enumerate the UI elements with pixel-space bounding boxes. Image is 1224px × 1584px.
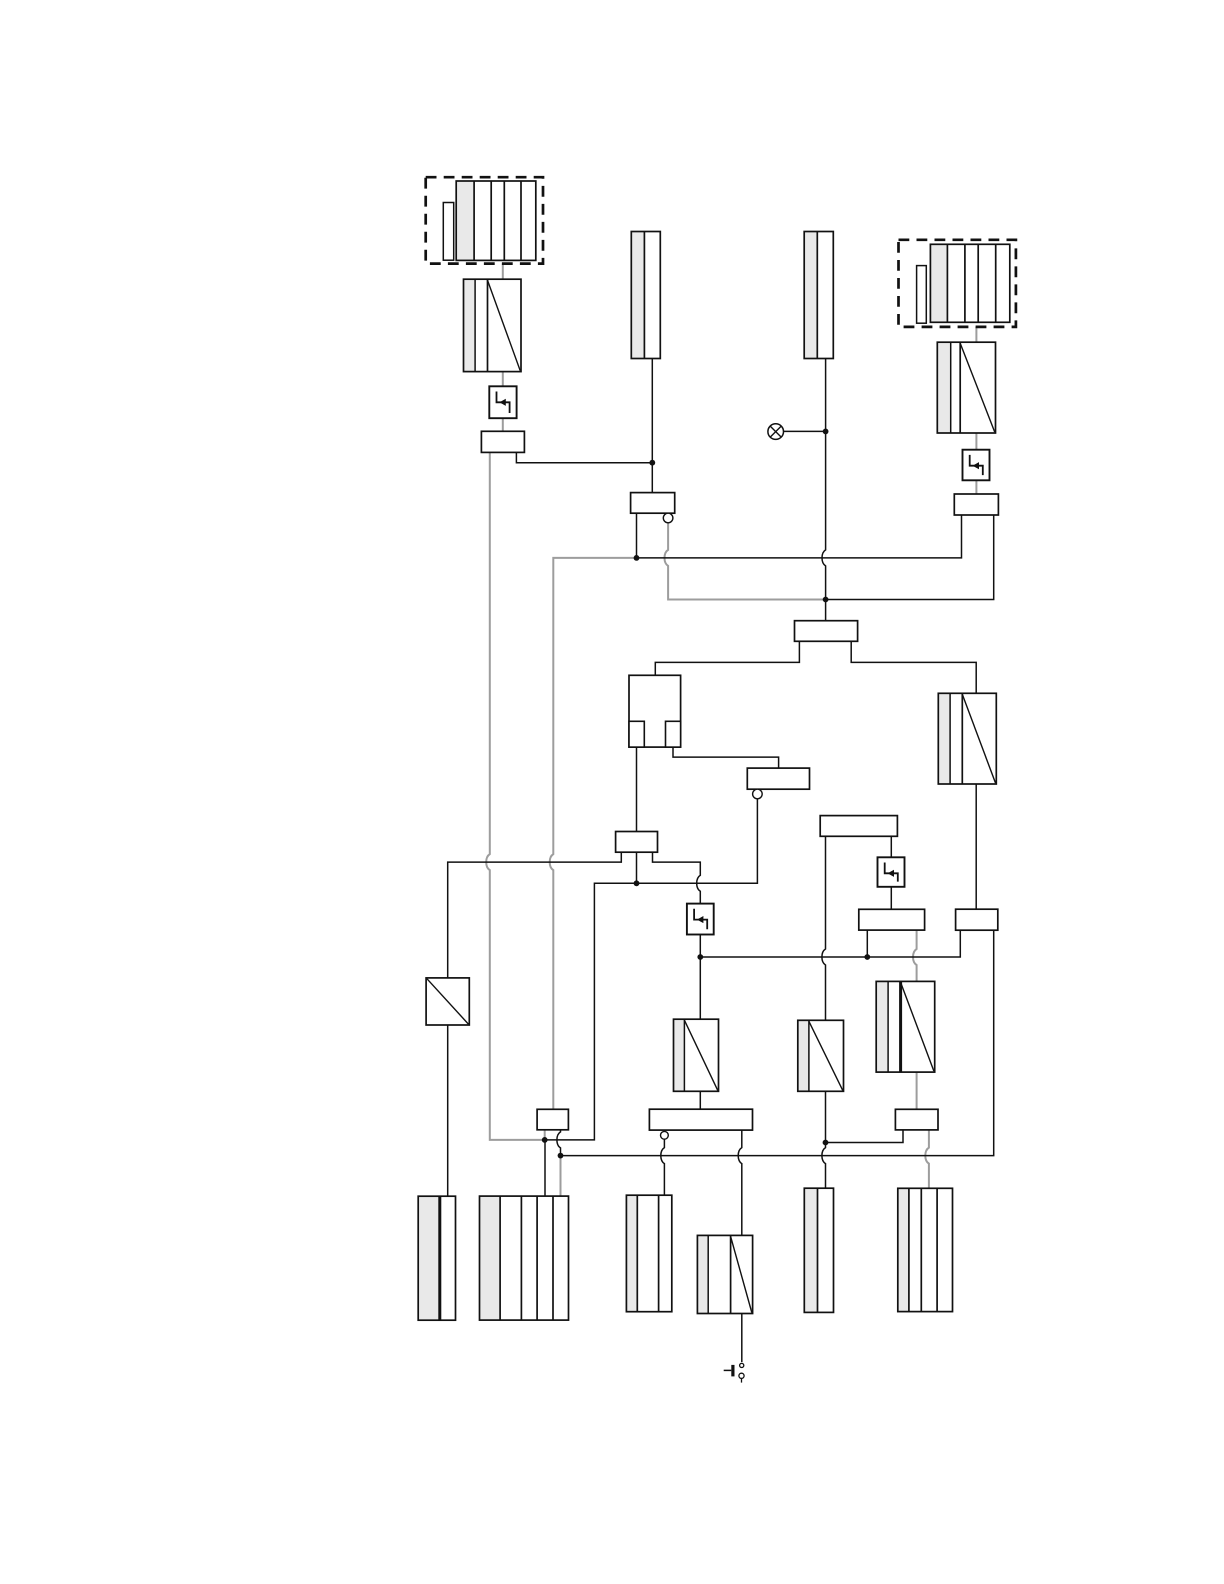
wire: junction J5 inverted output down to rail then left to riser and node N8 bbox=[545, 799, 758, 1140]
wire: splitter FK1 right port to junction J5 bbox=[673, 747, 779, 768]
junction J6 bbox=[820, 816, 897, 837]
source block T2 bbox=[804, 232, 833, 359]
wire: junction J7 left output to node N7 bbox=[866, 930, 868, 957]
node N8 bbox=[542, 1137, 548, 1143]
wire: junction J4 right output to inverter U3 bbox=[851, 641, 976, 693]
wire: junction J1 left drop to node N8 (long gray riser) bbox=[486, 452, 545, 1140]
wire: junction J12 inverted output to load block L3 bbox=[661, 1139, 665, 1195]
wire: breaker S4 through node N6 to inverter U4 bbox=[699, 935, 701, 1020]
wire: bus node N9 drop to load block L2 bbox=[560, 1156, 562, 1197]
wire: junction J2 left output to node N3 bbox=[636, 513, 638, 558]
wire: junction J7 right output to battery inverter U6 bbox=[913, 930, 917, 981]
PV array 1 boundary (dashed) bbox=[426, 177, 543, 263]
PV array 2 sensor bar bbox=[917, 266, 927, 324]
wire: source T1 down through node N1 to junction J2 bbox=[651, 359, 653, 493]
node N6 bbox=[697, 954, 703, 960]
wire: node N10 rail to junction J11 left port bbox=[826, 1130, 904, 1143]
wire: node N8 drop to load block L2 bbox=[544, 1140, 546, 1196]
junction J5 bbox=[747, 768, 809, 789]
wire: junction J11 right output to load block L6 bbox=[925, 1130, 929, 1188]
node N7 bbox=[864, 954, 870, 960]
PV array 1 sensor bar bbox=[443, 203, 453, 261]
node N4 bbox=[823, 597, 829, 603]
PV array 2 module stack bbox=[930, 244, 1009, 322]
inverted port of junction J2 bbox=[663, 513, 673, 523]
node N10 bbox=[823, 1140, 829, 1146]
load block L6 bbox=[898, 1188, 953, 1311]
lamp X1 bbox=[768, 424, 784, 440]
inverter U2 bbox=[937, 342, 995, 433]
wire: junction J9 right output to breaker S4 bbox=[653, 852, 701, 903]
wire: junction J12 right output to inverter U7 bbox=[738, 1130, 742, 1235]
node N1 bbox=[649, 460, 655, 466]
wire: battery inverter U6 to junction J11 bbox=[916, 1072, 918, 1109]
PV array 1 module stack bbox=[456, 181, 536, 260]
breaker S2 bbox=[963, 450, 990, 481]
wire: junction J4 left output to splitter FK1 bbox=[655, 641, 799, 675]
wire: inverter U2 to breaker S2 bbox=[975, 433, 977, 450]
junction J9 bbox=[616, 832, 658, 853]
transformer TR1 bbox=[426, 978, 469, 1025]
inverter U4 bbox=[674, 1019, 719, 1091]
load block L3 bbox=[626, 1195, 671, 1312]
inverter U3 bbox=[938, 693, 996, 784]
wire: source T2 down through lamp node and node N4 to junction J4 bbox=[822, 359, 826, 621]
junction J12 bbox=[649, 1109, 752, 1130]
earthing switch bar bbox=[724, 1365, 735, 1377]
wire: node N3 to junction J3 left port (net mid rail) bbox=[637, 515, 962, 558]
PV array 2 boundary (dashed) bbox=[899, 240, 1016, 327]
load block L4 bbox=[804, 1188, 833, 1312]
source block T1 bbox=[631, 232, 660, 359]
inverter U1 bbox=[464, 279, 522, 371]
junction J11 bbox=[895, 1109, 938, 1130]
wire: junction J9 left output to transformer TR1 bbox=[448, 852, 622, 978]
wire: inverter U4 to junction J12 bbox=[699, 1091, 701, 1109]
wire: junction J8 right output down to main bus bbox=[561, 930, 994, 1155]
wire: lamp tap bbox=[784, 430, 826, 432]
node N9 bbox=[558, 1153, 564, 1159]
wire: junction J6 right output to breaker S3 bbox=[890, 836, 892, 857]
junction J4 bbox=[795, 621, 858, 642]
wire: inverter U7 to earthing switch bbox=[741, 1314, 743, 1363]
wire: breaker S3 to junction J7 bbox=[890, 887, 892, 910]
junction J1 bbox=[481, 431, 524, 452]
wire: breaker S1 to junction J1 bbox=[502, 418, 504, 431]
wire: junction J9 centre output to node N5 bbox=[636, 852, 638, 883]
junction J8 bbox=[956, 909, 998, 930]
node N2 (lamp tap) bbox=[823, 429, 829, 435]
breaker S1 bbox=[489, 386, 516, 418]
wire: inverter U3 to junction J8 bbox=[975, 784, 977, 909]
breaker S3 bbox=[878, 857, 905, 887]
inverter U7 bbox=[697, 1235, 752, 1313]
junction J10 bbox=[537, 1109, 568, 1130]
wire: junction J3 right output down to node N4 bbox=[826, 515, 994, 600]
wire: junction J2 inverted output down and right to node N4 bbox=[665, 523, 826, 600]
earthing switch contact bbox=[739, 1363, 744, 1382]
node N3 bbox=[634, 555, 640, 561]
wire: junction J1 right output to node N1 bbox=[516, 452, 652, 462]
breaker S4 bbox=[687, 904, 714, 935]
wire: splitter FK1 left port to junction J9 bbox=[636, 747, 638, 831]
node N5 bbox=[634, 880, 640, 886]
wire: node N6 rail to junction J8 left port bbox=[700, 930, 960, 957]
wire: inverter U1 to breaker S1 bbox=[502, 372, 504, 387]
junction J2 bbox=[631, 493, 675, 514]
battery inverter U6 bbox=[876, 981, 935, 1072]
inverter U5 bbox=[798, 1020, 844, 1091]
inverted port of junction J5 bbox=[753, 789, 763, 799]
junction J7 bbox=[859, 909, 925, 930]
splitter FK1 bbox=[629, 675, 681, 747]
wire: junction J10 right output to bus node N9 bbox=[557, 1130, 561, 1156]
inverted port of junction J12 bbox=[661, 1131, 669, 1139]
wire: breaker S2 to junction J3 bbox=[975, 480, 977, 494]
wire: net A horizontal into node N3 with drop to junction J10 bbox=[550, 558, 637, 1109]
wire: transformer TR1 to load block L1 bbox=[447, 1025, 449, 1196]
load block L2 bbox=[480, 1196, 569, 1320]
load block L1 bbox=[418, 1196, 455, 1320]
wire: junction J6 left output through inverter U5 to bus and load block L4 bbox=[822, 836, 826, 1188]
wire: junction J10 left output to node N8 bbox=[544, 1130, 546, 1140]
wire: PV array 2 to inverter U2 (gray feed) bbox=[975, 327, 977, 342]
wire: PV array 1 to inverter U1 (gray feed) bbox=[502, 264, 504, 280]
junction J3 bbox=[954, 494, 998, 515]
